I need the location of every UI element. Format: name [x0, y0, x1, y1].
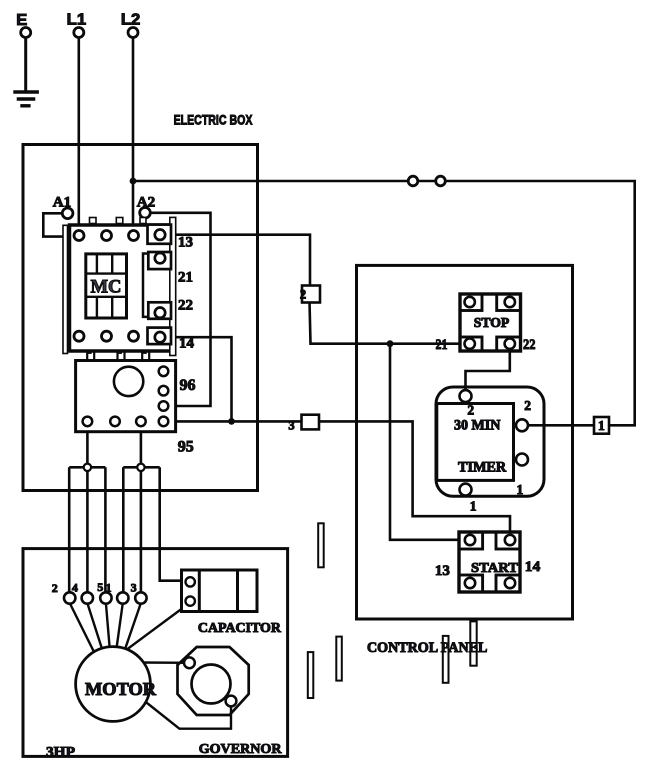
svg-text:13: 13 [435, 563, 450, 579]
svg-text:96: 96 [180, 377, 196, 394]
svg-text:5: 5 [97, 580, 103, 594]
svg-text:MC: MC [91, 277, 122, 298]
svg-text:L1: L1 [67, 11, 87, 28]
svg-text:21: 21 [436, 337, 448, 353]
svg-text:22: 22 [178, 298, 193, 314]
svg-text:1: 1 [470, 498, 477, 513]
svg-text:3: 3 [288, 418, 294, 432]
svg-text:2: 2 [524, 398, 531, 413]
svg-text:STOP: STOP [474, 315, 510, 330]
svg-text:2: 2 [52, 581, 58, 595]
svg-text:MOTOR: MOTOR [85, 679, 156, 699]
svg-text:1: 1 [598, 418, 605, 433]
svg-text:3: 3 [131, 581, 137, 595]
svg-text:22: 22 [523, 337, 536, 353]
svg-text:START: START [471, 561, 519, 576]
svg-text:30 MIN: 30 MIN [454, 418, 501, 434]
svg-text:95: 95 [178, 439, 194, 456]
svg-text:1: 1 [106, 581, 112, 595]
svg-text:14: 14 [525, 559, 541, 575]
svg-text:1: 1 [517, 482, 524, 497]
svg-text:GOVERNOR: GOVERNOR [199, 741, 283, 757]
svg-text:13: 13 [178, 235, 193, 251]
svg-text:TIMER: TIMER [458, 460, 507, 476]
svg-text:A1: A1 [53, 195, 72, 211]
svg-text:3HP: 3HP [46, 744, 75, 760]
svg-text:2: 2 [300, 287, 306, 301]
svg-text:E: E [16, 12, 27, 29]
svg-text:4: 4 [72, 581, 78, 595]
svg-text:2: 2 [467, 403, 474, 418]
svg-text:14: 14 [179, 336, 195, 352]
svg-text:CAPACITOR: CAPACITOR [198, 620, 282, 635]
svg-text:ELECTRIC BOX: ELECTRIC BOX [174, 112, 253, 128]
svg-text:L2: L2 [121, 11, 140, 28]
svg-text:A2: A2 [137, 195, 156, 211]
svg-text:21: 21 [178, 270, 193, 286]
svg-text:CONTROL PANEL: CONTROL PANEL [367, 640, 487, 656]
